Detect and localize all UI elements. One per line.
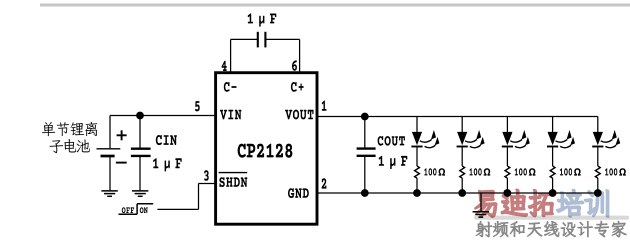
wire resistor R4 to GND rail: [552, 178, 554, 193]
wire LED D1 to resistor R1: [416, 148, 418, 167]
wire C1 to pin 6: [266, 38, 299, 40]
LED D2: [457, 130, 485, 148]
capacitor CIN: [131, 116, 151, 191]
resistor R5: [595, 166, 600, 178]
wire LED D3 to resistor R3: [506, 148, 508, 167]
wire VOUT rail to LED D5: [597, 117, 599, 133]
value label 1μF (CIN): [153, 158, 182, 171]
label OFF: [122, 207, 134, 213]
LED D4: [547, 130, 575, 148]
wire VOUT rail to LED D1: [416, 117, 418, 133]
node GND rail junction (COUT): [361, 189, 369, 197]
label COUT: [378, 136, 405, 146]
wire pin 3 SHDN to switch: [199, 183, 216, 185]
wire input rail (battery/CIN to pin 5 VIN): [110, 115, 215, 117]
pin label C-: [224, 82, 237, 92]
value label 1μF (COUT): [379, 156, 408, 169]
label battery 单节锂离子电池: [42, 122, 97, 153]
LED D3: [502, 130, 530, 148]
capacitor COUT: [357, 117, 376, 194]
node GND rail junction (branch 5): [594, 189, 602, 197]
LED D5: [592, 130, 620, 148]
watermark subtitle 射频和天线设计专家: [476, 221, 627, 237]
node input junction: [136, 112, 144, 120]
value label 1μF (C1): [248, 13, 277, 26]
resistor R1: [415, 166, 420, 178]
LED D1: [411, 130, 439, 148]
value label 100Ω (R2): [470, 168, 491, 175]
wire GND rail: [317, 192, 598, 194]
resistor R4: [550, 166, 555, 178]
wire resistor R5 to GND rail: [597, 178, 599, 193]
ground (CIN): [132, 190, 148, 192]
battery BT1: [97, 116, 127, 191]
pin label VIN: [220, 110, 242, 120]
wire resistor R1 to GND rail: [416, 178, 418, 193]
switch SW1 (ON/OFF): [119, 213, 138, 215]
capacitor C1 (flying cap): [258, 32, 266, 48]
pin label C+: [291, 82, 304, 92]
label ON: [140, 207, 148, 213]
pin number 5: [195, 101, 200, 111]
value label 100Ω (R1): [424, 168, 445, 175]
pin number 6: [292, 60, 297, 71]
wire LED D4 to resistor R4: [552, 148, 554, 167]
ground (battery): [109, 190, 111, 192]
wire VOUT rail to LED D4: [552, 117, 554, 133]
value label 100Ω (R5): [605, 168, 626, 175]
node VOUT junction (COUT): [361, 113, 369, 121]
pin number 1: [322, 100, 327, 110]
wire resistor R2 to GND rail: [461, 178, 463, 193]
label CIN: [156, 135, 177, 145]
value label 100Ω (R4): [560, 168, 581, 175]
node GND rail junction (branch 3): [504, 189, 512, 197]
pin number 4: [222, 61, 227, 71]
wire LED D2 to resistor R2: [461, 148, 463, 167]
wire VOUT rail: [317, 116, 598, 118]
resistor R3: [505, 166, 510, 178]
wire pin 4 to C1: [230, 39, 232, 72]
pin number 3: [204, 170, 209, 181]
value label 100Ω (R3): [515, 168, 536, 175]
IC U1 CP2128: [216, 73, 317, 225]
wire VOUT rail to LED D3: [506, 117, 508, 133]
ground (output rail): [480, 193, 482, 212]
watermark underline bar: [474, 216, 629, 220]
label CP2128: [238, 144, 293, 158]
pin label SHDN (with overline): [219, 173, 248, 187]
resistor R2: [460, 166, 465, 178]
watermark logo 易迪拓培训: [475, 190, 608, 218]
pin number 2: [322, 178, 327, 188]
wire VOUT rail to LED D2: [461, 117, 463, 133]
wire resistor R3 to GND rail: [506, 178, 508, 193]
node GND rail junction (branch 2): [458, 189, 466, 197]
node GND rail junction (branch 1): [413, 189, 421, 197]
node GND rail junction (branch 4): [549, 189, 557, 197]
wire LED D5 to resistor R5: [597, 148, 599, 167]
pin label GND: [288, 188, 309, 198]
pin label VOUT: [285, 110, 313, 120]
